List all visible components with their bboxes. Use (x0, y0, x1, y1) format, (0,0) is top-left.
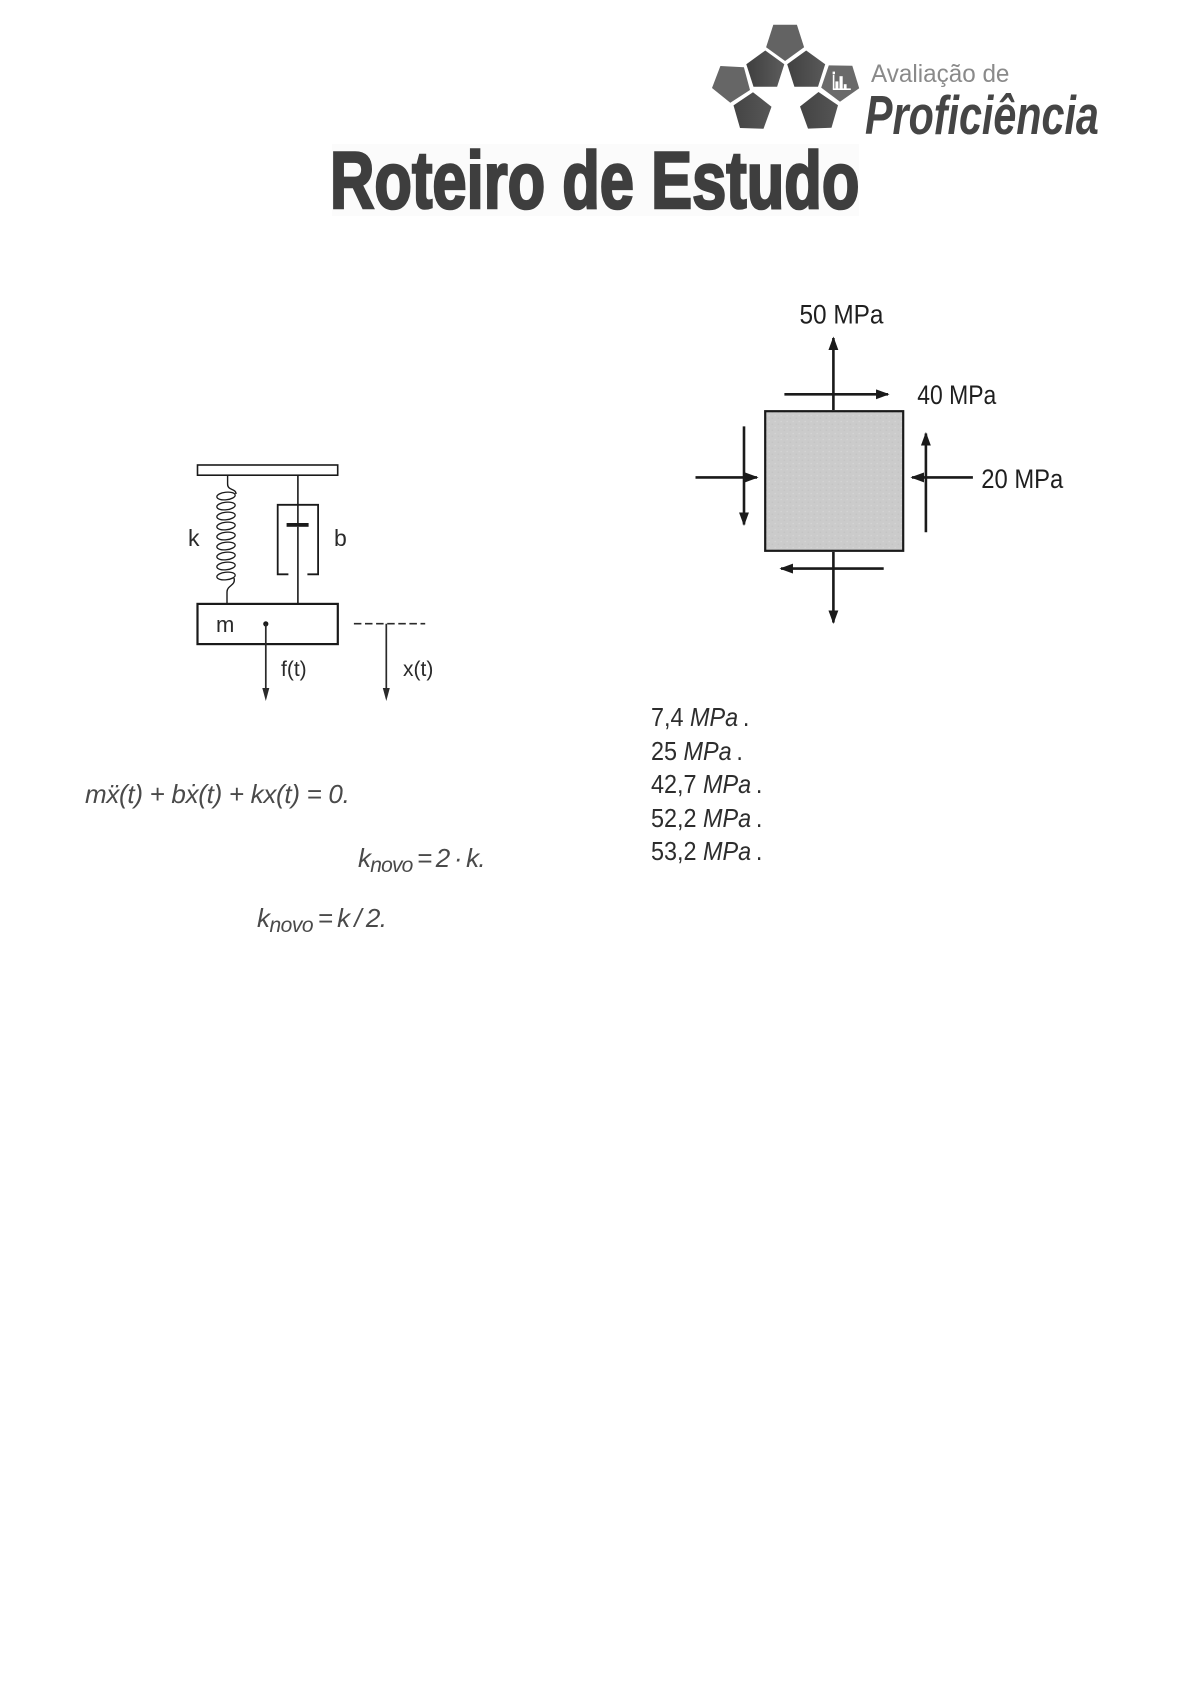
pentagon upper-right (787, 51, 825, 87)
title background halo (332, 144, 859, 216)
svg-text:m: m (216, 612, 234, 637)
svg-text:40 MPa: 40 MPa (917, 380, 997, 410)
answer options (651, 701, 762, 869)
datum dashed line (354, 623, 425, 625)
logo pentagon cluster (700, 18, 870, 143)
sigma-x left arrow (right, toward square) (696, 476, 758, 479)
equation 3 (257, 903, 387, 938)
pentagon upper-left (746, 51, 784, 87)
equation 2 (358, 843, 485, 878)
title (330, 135, 859, 228)
pentagon outer-left (712, 66, 750, 103)
spring-mass-damper figure (180, 450, 440, 715)
sigma-y arrow (up) (832, 338, 835, 410)
svg-text:b: b (334, 525, 347, 551)
svg-text:20 MPa: 20 MPa (981, 464, 1064, 494)
svg-text:x(t): x(t) (403, 658, 433, 681)
pentagon bottom-left (734, 92, 772, 129)
x(t) arrow (385, 624, 387, 692)
svg-text:f(t): f(t) (281, 658, 307, 681)
stress element figure (680, 295, 1080, 635)
logo text line 1 (871, 60, 1009, 89)
sigma-x right arrow (left, toward square) (912, 476, 973, 479)
svg-text:50 MPa: 50 MPa (800, 300, 885, 330)
damper cylinder (278, 505, 318, 575)
tau left arrow (down) (743, 426, 746, 524)
spring k wire top (228, 475, 236, 494)
pentagon bottom-right (800, 92, 838, 129)
mass block m (198, 604, 338, 644)
spring coil (216, 491, 235, 580)
bar-chart icon (833, 72, 851, 90)
logo text line 2 (865, 83, 1099, 147)
damper rod top (297, 475, 299, 523)
tau top arrow (right) (784, 393, 888, 396)
stressed square element (765, 411, 903, 551)
tau bottom arrow (left) (781, 567, 884, 570)
f(t) arrow (265, 624, 267, 692)
spring k wire bottom (227, 578, 234, 604)
tau right arrow (up) (925, 434, 928, 533)
equation 1 (85, 779, 350, 810)
force application dot (263, 621, 268, 626)
ceiling bar (198, 465, 338, 475)
svg-text:k: k (188, 525, 200, 551)
damper piston plate (287, 523, 309, 527)
pentagon chart (outer-right) (821, 65, 859, 101)
sigma-y bottom arrow (down) (832, 552, 835, 623)
pentagon top (766, 25, 804, 61)
damper rod bottom (297, 527, 299, 604)
